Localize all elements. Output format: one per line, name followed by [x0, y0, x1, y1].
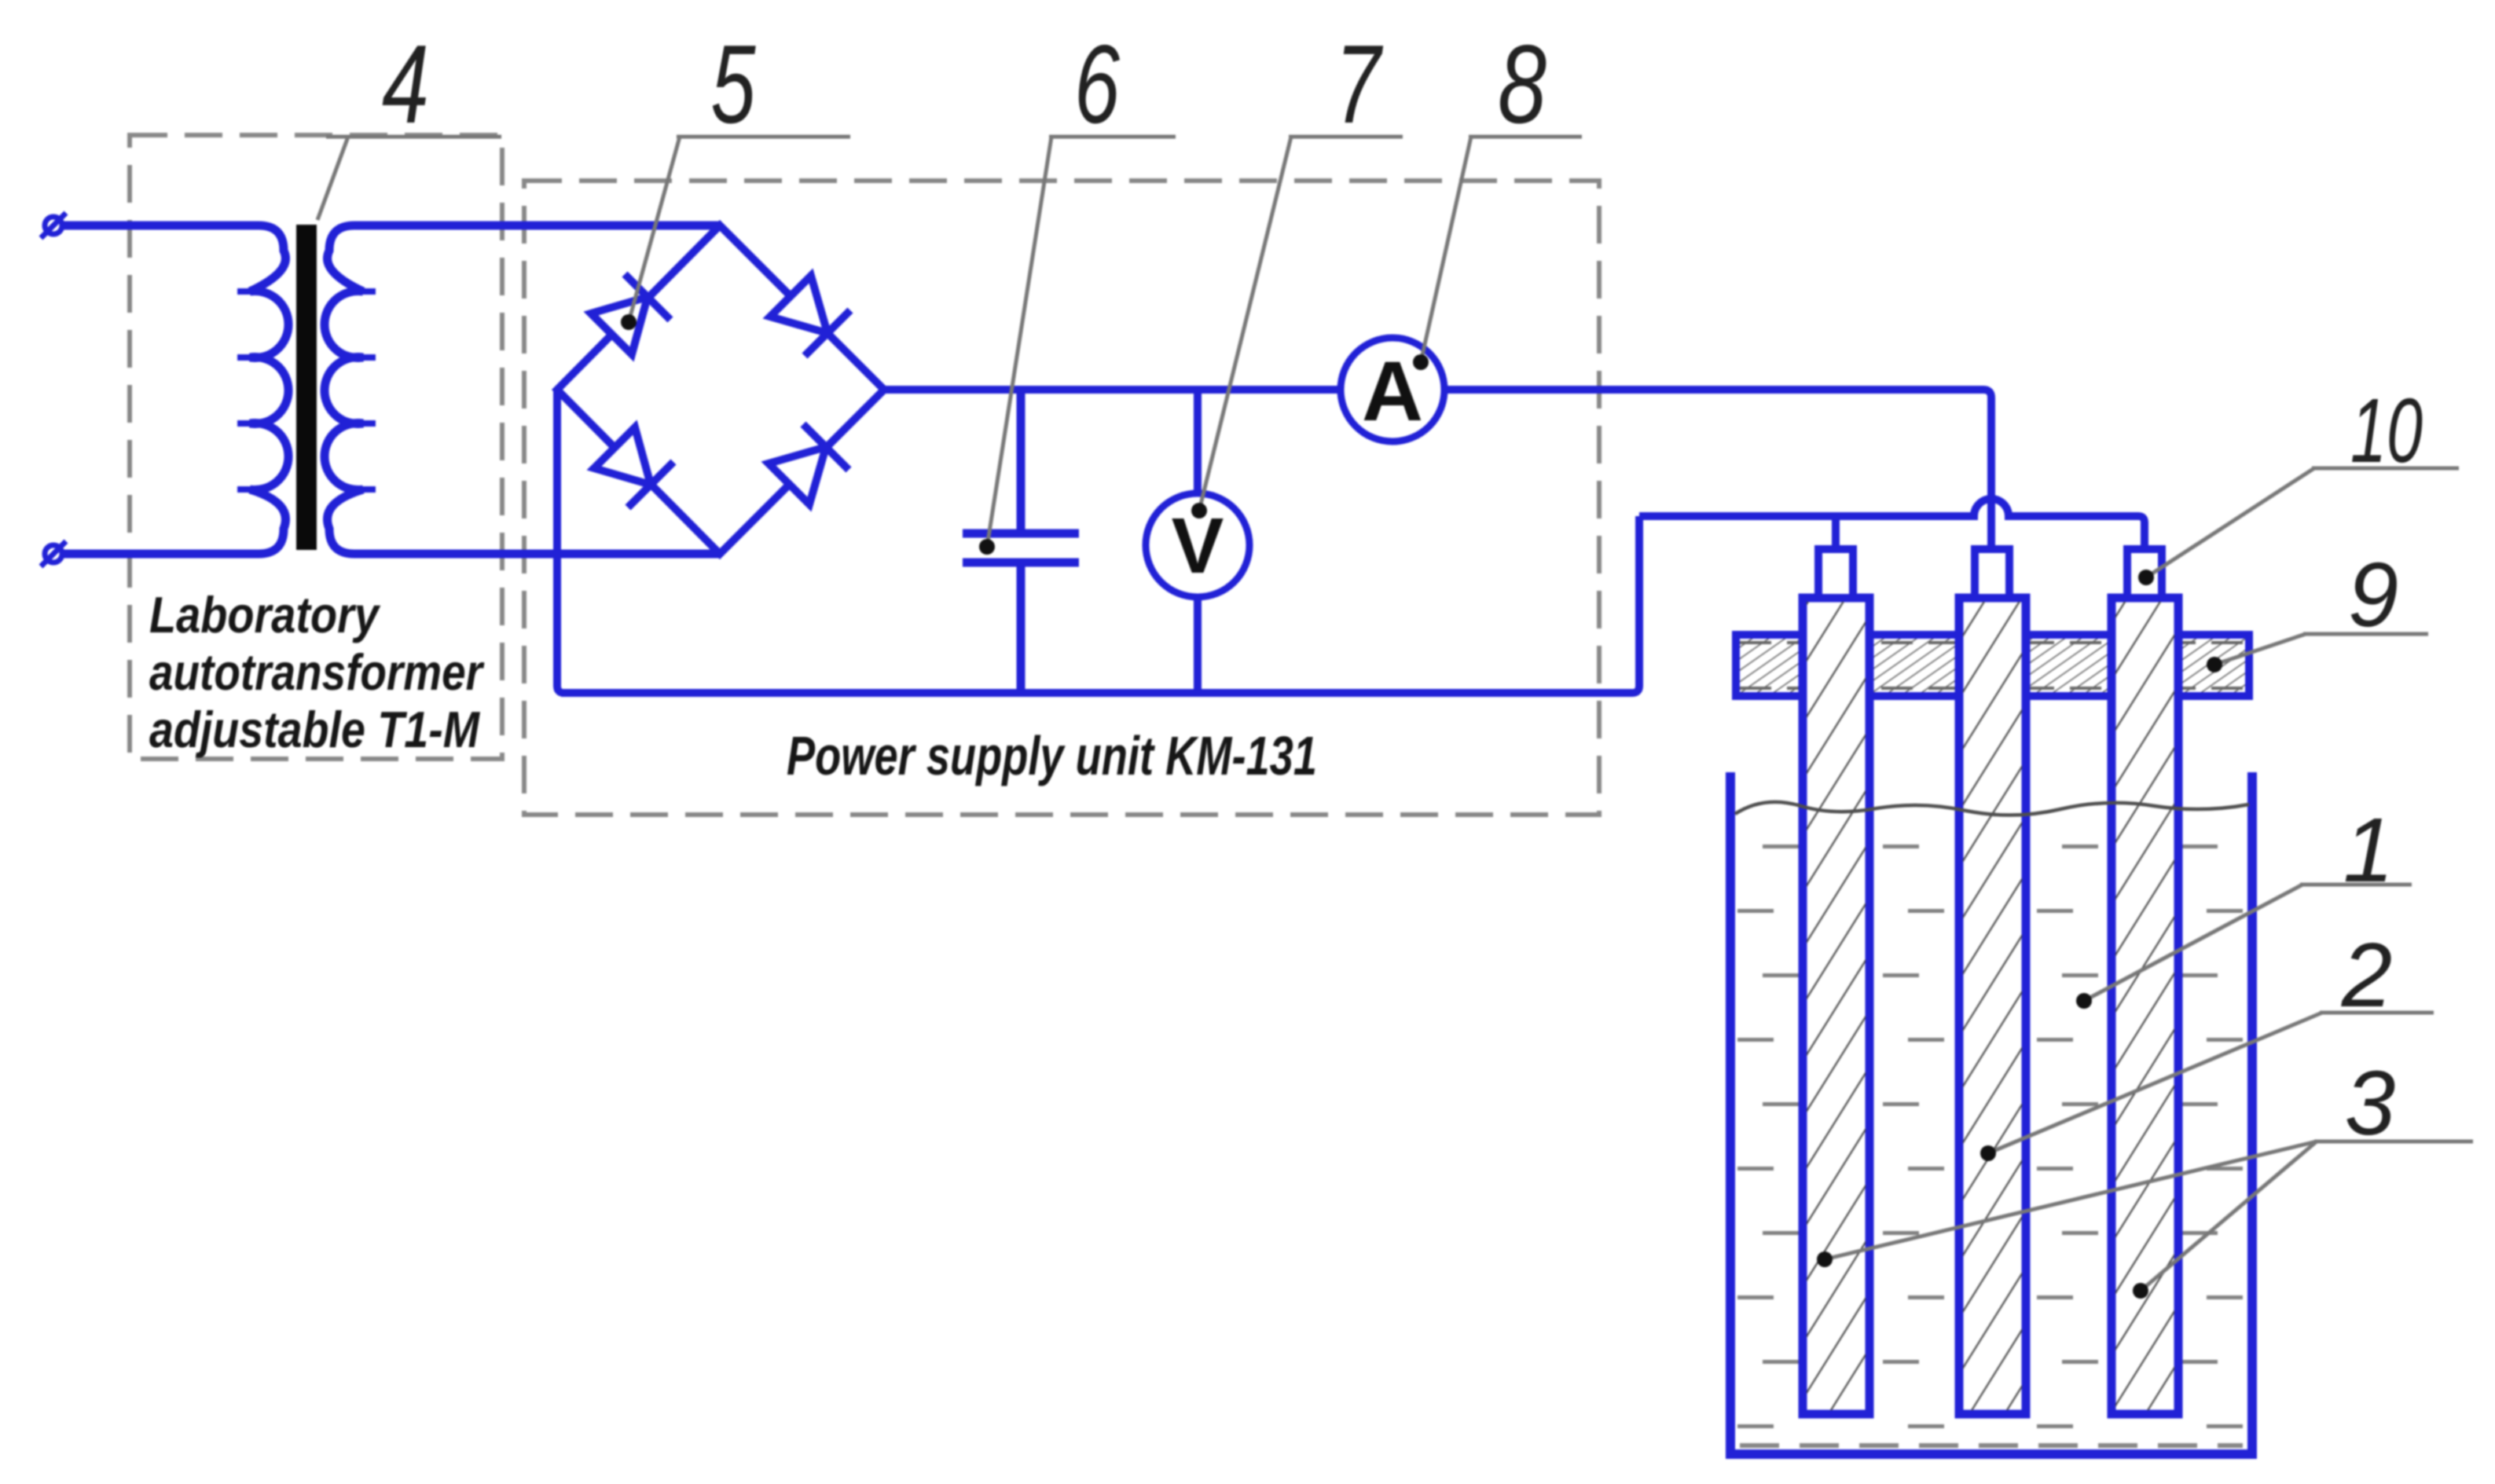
electrode 3 (right)	[2112, 598, 2178, 1414]
water dashes (electrolyte)	[1737, 845, 2243, 1428]
autotransformer caption	[149, 586, 485, 758]
svg-text:9: 9	[2348, 544, 2399, 646]
svg-text:adjustable T1-M: adjustable T1-M	[149, 701, 481, 758]
electrode 2 (middle)	[1959, 598, 2026, 1414]
diode D3 (bottom-left)	[594, 427, 673, 507]
label 3 leader	[1825, 1141, 2473, 1291]
label 8 leader	[1421, 137, 1582, 362]
label 6 leader	[987, 137, 1176, 547]
svg-text:autotransformer: autotransformer	[149, 643, 485, 701]
bus wire to outer electrodes with hop	[1639, 499, 2145, 549]
diode D1 (top-left)	[591, 274, 670, 354]
electrode 1 (left)	[1803, 598, 1869, 1414]
capacitor C	[963, 390, 1079, 693]
bridge rectifier diamond	[557, 225, 884, 554]
svg-text:6: 6	[1074, 22, 1120, 147]
svg-text:10: 10	[2350, 379, 2423, 482]
svg-text:1: 1	[2343, 799, 2394, 901]
svg-text:8: 8	[1498, 22, 1547, 147]
input terminal bottom	[41, 541, 66, 566]
svg-text:7: 7	[1335, 22, 1384, 147]
svg-text:4: 4	[382, 22, 429, 147]
svg-text:Power supply unit KM-131: Power supply unit KM-131	[787, 725, 1317, 786]
autotransformer dashed box	[130, 135, 502, 759]
label 2 leader	[1988, 1013, 2434, 1153]
tank 1 walls	[1730, 772, 2252, 1454]
transformer T1 primary winding	[62, 225, 288, 554]
svg-text:2: 2	[2341, 924, 2393, 1026]
wire: bottom rail of power supply	[561, 516, 1639, 693]
wire: drop from ammeter rail to middle electrode	[1983, 390, 1991, 549]
label 5 leader	[629, 137, 850, 322]
electrode clamp pin 3	[2127, 549, 2162, 598]
water level wavy line	[1735, 802, 2249, 815]
label 10 leader	[2146, 468, 2459, 577]
voltmeter wire	[1194, 390, 1202, 693]
svg-text:5: 5	[711, 22, 757, 147]
label 1 leader	[2084, 885, 2412, 1001]
transformer secondary winding	[325, 225, 720, 554]
voltmeter V	[1146, 493, 1249, 597]
holder bar 9	[1736, 635, 2249, 696]
svg-text:3: 3	[2345, 1052, 2396, 1154]
diode D4 (bottom-right)	[769, 424, 849, 504]
wire: main positive rail	[884, 386, 1983, 394]
wire: bridge negative vertical	[557, 390, 564, 693]
ammeter A	[1341, 338, 1444, 442]
electrode clamp pin 2	[1975, 549, 2009, 598]
label 7 leader	[1199, 137, 1403, 511]
input terminal top	[41, 213, 66, 238]
svg-text:Laboratory: Laboratory	[149, 586, 380, 643]
diode D2 (top-right)	[770, 276, 850, 356]
label 9 leader	[2214, 634, 2428, 665]
transformer core	[296, 225, 317, 550]
stem to electrode 1	[1832, 516, 1840, 549]
electrode clamp pin 1	[1818, 549, 1853, 598]
svg-text:A: A	[1362, 343, 1423, 438]
label 4 leader	[317, 137, 501, 220]
power supply dashed box	[524, 181, 1599, 815]
tank bottom hidden dashed line	[1740, 1443, 2243, 1448]
